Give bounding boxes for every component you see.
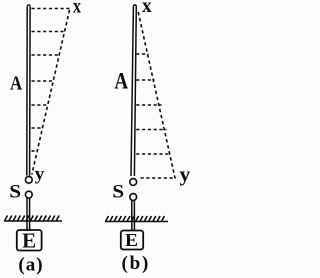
svg-text:A: A xyxy=(114,68,128,94)
svg-text:(a): (a) xyxy=(18,255,43,276)
svg-text:E: E xyxy=(22,228,36,252)
svg-text:E: E xyxy=(125,231,138,251)
svg-text:S: S xyxy=(9,181,21,202)
svg-text:A: A xyxy=(10,72,23,95)
svg-text:x: x xyxy=(142,0,152,17)
svg-text:(b): (b) xyxy=(122,253,151,274)
svg-text:y: y xyxy=(35,164,45,183)
svg-text:y: y xyxy=(180,162,191,185)
svg-text:S: S xyxy=(112,181,124,202)
svg-text:x: x xyxy=(73,0,81,17)
